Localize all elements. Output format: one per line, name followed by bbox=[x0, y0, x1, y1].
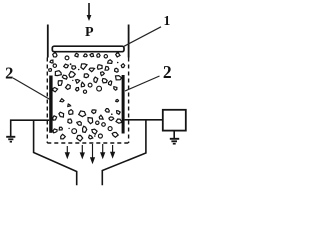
svg-text:1: 1 bbox=[164, 13, 171, 28]
svg-text:2: 2 bbox=[5, 63, 13, 82]
svg-text:2: 2 bbox=[163, 62, 172, 82]
svg-text:P: P bbox=[85, 25, 94, 40]
